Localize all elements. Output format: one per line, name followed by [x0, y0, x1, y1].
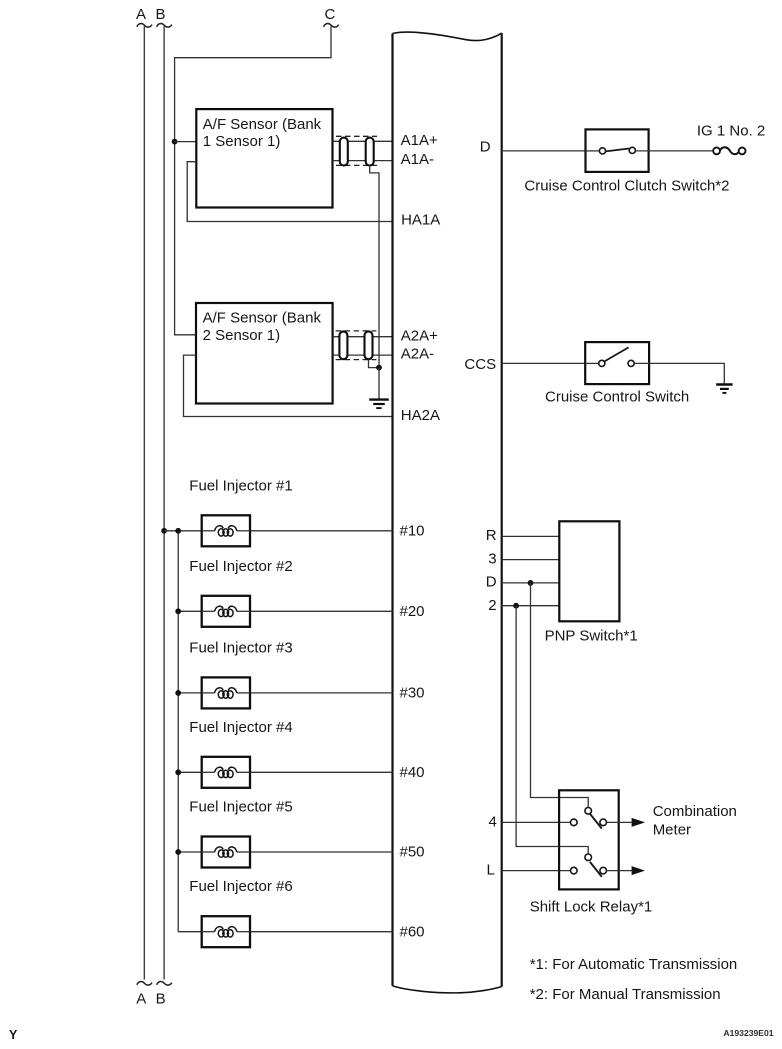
node B label bottom — [156, 991, 166, 1008]
svg-text:#60: #60 — [400, 923, 425, 940]
cruise control switch SW2 — [585, 342, 649, 384]
svg-text:A2A-: A2A- — [401, 345, 434, 362]
svg-text:#40: #40 — [400, 764, 425, 781]
svg-text:IG 1 No. 2: IG 1 No. 2 — [697, 123, 765, 140]
page marker Y — [9, 1028, 18, 1042]
junction on bus B for injectors — [161, 528, 167, 534]
ECM pin #20 label — [400, 603, 425, 620]
wire D to clutch switch — [502, 150, 600, 152]
wire C branch to bank1 sensor — [175, 141, 197, 143]
wire D branch to relay — [531, 583, 589, 808]
wire A1A+ — [333, 140, 393, 142]
node B label top — [155, 6, 165, 23]
A/F sensor bank1 box — [196, 109, 332, 207]
wire A1A- — [333, 160, 393, 162]
wire relay lower output arrow — [607, 866, 646, 875]
note 2 — [530, 986, 721, 1003]
node A break tilde top — [137, 24, 152, 28]
node B break tilde top — [157, 24, 172, 28]
svg-text:Y: Y — [9, 1028, 18, 1042]
ECM pin #60 label — [400, 923, 425, 940]
svg-text:Cruise Control Switch: Cruise Control Switch — [545, 389, 689, 406]
ECM pin #50 label — [400, 844, 425, 861]
wire R to PNP — [502, 535, 560, 537]
ECM pin #40 label — [400, 764, 425, 781]
injector L3 wires — [178, 692, 202, 694]
ECM band — [393, 32, 502, 993]
ECM pin A2A- label — [401, 345, 434, 362]
cruise control clutch switch label — [524, 177, 729, 194]
svg-text:Fuel Injector #1: Fuel Injector #1 — [189, 477, 292, 494]
ECM pin HA2A label — [401, 407, 440, 424]
ground shield — [369, 400, 389, 409]
wire clutch switch to IG — [635, 150, 713, 152]
combination meter label — [653, 803, 737, 839]
svg-text:Cruise Control Clutch Switch*2: Cruise Control Clutch Switch*2 — [524, 177, 729, 194]
junction 2 branch — [513, 603, 519, 609]
injector feed branch wire — [177, 531, 179, 932]
wire shield drain bank2 — [369, 360, 380, 368]
shift lock relay label — [530, 899, 653, 916]
shielded cable bank1 — [336, 136, 377, 165]
svg-text:Fuel Injector #4: Fuel Injector #4 — [189, 719, 292, 736]
ECM pin A2A+ label — [401, 327, 438, 344]
svg-text:A/F Sensor (Bank: A/F Sensor (Bank — [203, 310, 322, 327]
injector L3 (coil in box) — [202, 677, 250, 708]
wire relay upper output arrow — [607, 818, 646, 827]
svg-text:L: L — [487, 862, 495, 879]
fuel injector #3 label — [189, 639, 292, 656]
svg-text:Meter: Meter — [653, 821, 691, 838]
ECM pin CCS label — [464, 356, 496, 373]
injector L1 (coil in box) — [202, 515, 250, 546]
wire bus B — [163, 26, 165, 979]
injector L6 wires — [178, 931, 202, 933]
PNP switch label — [545, 628, 638, 645]
svg-text:D: D — [486, 574, 497, 591]
svg-text:B: B — [155, 6, 165, 23]
node A label top — [136, 6, 146, 23]
ECM pin D label — [480, 139, 491, 156]
svg-text:#50: #50 — [400, 844, 425, 861]
ECM pin HA1A label — [401, 211, 440, 228]
svg-text:B: B — [156, 991, 166, 1008]
wire 3 to PNP — [502, 559, 560, 561]
ECM pin 4 label — [489, 814, 497, 831]
injector L5 wires — [178, 851, 202, 853]
injector L4 wires — [178, 771, 202, 773]
svg-text:A2A+: A2A+ — [401, 327, 438, 344]
node A break tilde bottom — [137, 982, 152, 986]
svg-text:A/F Sensor (Bank: A/F Sensor (Bank — [203, 116, 322, 133]
svg-text:3: 3 — [488, 550, 496, 567]
svg-text:CCS: CCS — [464, 356, 496, 373]
svg-text:A: A — [136, 6, 146, 23]
wire shield drain bank1 — [370, 166, 379, 368]
junction D branch — [528, 580, 534, 586]
cruise control switch label — [545, 389, 689, 406]
wire from C — [175, 26, 331, 335]
ECM pin R label — [486, 527, 497, 544]
svg-text:A1A+: A1A+ — [401, 132, 438, 149]
figure code — [723, 1028, 773, 1038]
wire CCS to cruise switch — [502, 362, 599, 364]
fuel injector #1 label — [189, 477, 292, 494]
svg-text:Fuel Injector #6: Fuel Injector #6 — [189, 878, 292, 895]
svg-text:#30: #30 — [400, 685, 425, 702]
wire HA2A — [184, 355, 393, 416]
wire 4 to relay — [502, 821, 571, 823]
node C label — [324, 6, 335, 23]
cruise control clutch switch SW1 — [586, 129, 649, 172]
fuel injector #4 label — [189, 719, 292, 736]
wire A2A- — [333, 354, 393, 356]
svg-text:R: R — [486, 527, 497, 544]
wire 2 branch to relay — [516, 606, 588, 854]
note 1 — [530, 956, 738, 973]
ECM pin 2 label — [488, 597, 496, 614]
PNP switch box — [559, 521, 619, 621]
ECM pin #10 label — [400, 522, 425, 539]
svg-text:Fuel Injector #5: Fuel Injector #5 — [189, 799, 292, 816]
svg-text:HA1A: HA1A — [401, 211, 440, 228]
shift lock relay box — [559, 790, 619, 889]
svg-text:A: A — [136, 991, 146, 1008]
A/F sensor bank2 box — [196, 303, 333, 404]
junction shield drains — [376, 365, 382, 371]
wire 2 to PNP — [502, 605, 560, 607]
ECM pin L label — [487, 862, 495, 879]
node B break tilde bottom — [157, 982, 172, 986]
injector L5 (coil in box) — [202, 837, 250, 868]
injector L4 (coil in box) — [202, 757, 250, 788]
wire HA1A — [187, 162, 392, 222]
svg-text:Shift Lock Relay*1: Shift Lock Relay*1 — [530, 899, 653, 916]
ground cruise switch — [716, 385, 732, 393]
wire A2A+ — [333, 336, 393, 338]
svg-text:PNP Switch*1: PNP Switch*1 — [545, 628, 638, 645]
ECM pin A1A- label — [401, 151, 434, 168]
wire L to relay — [502, 870, 571, 872]
svg-text:2 Sensor 1): 2 Sensor 1) — [203, 327, 281, 344]
wire D to PNP — [502, 582, 560, 584]
fuel injector #2 label — [189, 558, 292, 575]
svg-text:Combination: Combination — [653, 803, 737, 820]
svg-text:C: C — [324, 6, 335, 23]
wire cruise switch to ground — [634, 363, 724, 384]
shielded cable bank2 — [336, 331, 377, 360]
ECM pin 3 label — [488, 550, 496, 567]
wire bus A — [143, 26, 145, 979]
svg-text:Fuel Injector #2: Fuel Injector #2 — [189, 558, 292, 575]
relay contact upper — [571, 808, 607, 829]
IG 1 No. 2 connector symbol — [713, 147, 745, 154]
fuel injector #6 label — [189, 878, 292, 895]
ECM pin #30 label — [400, 685, 425, 702]
injector L1 wires — [164, 530, 202, 532]
svg-text:4: 4 — [489, 814, 497, 831]
ECM pin D2 label — [486, 574, 497, 591]
relay contact lower — [571, 854, 607, 877]
node C break tilde — [324, 24, 339, 28]
svg-text:#10: #10 — [400, 522, 425, 539]
IG 1 No. 2 label — [697, 123, 765, 140]
svg-text:Fuel Injector #3: Fuel Injector #3 — [189, 639, 292, 656]
svg-text:A193239E01: A193239E01 — [723, 1028, 773, 1038]
svg-text:#20: #20 — [400, 603, 425, 620]
svg-text:*1: For Automatic Transmission: *1: For Automatic Transmission — [530, 956, 738, 973]
ECM pin A1A+ label — [401, 132, 438, 149]
svg-text:HA2A: HA2A — [401, 407, 440, 424]
svg-text:1 Sensor 1): 1 Sensor 1) — [203, 133, 281, 150]
injector L6 (coil in box) — [202, 916, 250, 947]
injector L2 (coil in box) — [202, 596, 250, 627]
fuel injector #5 label — [189, 799, 292, 816]
injector L2 wires — [178, 610, 202, 612]
svg-text:A1A-: A1A- — [401, 151, 434, 168]
junction on C wire to bank1 sensor — [172, 139, 178, 145]
svg-text:*2: For Manual Transmission: *2: For Manual Transmission — [530, 986, 721, 1003]
node A label bottom — [136, 991, 146, 1008]
svg-text:2: 2 — [488, 597, 496, 614]
wire to ground — [378, 368, 380, 399]
svg-text:D: D — [480, 139, 491, 156]
